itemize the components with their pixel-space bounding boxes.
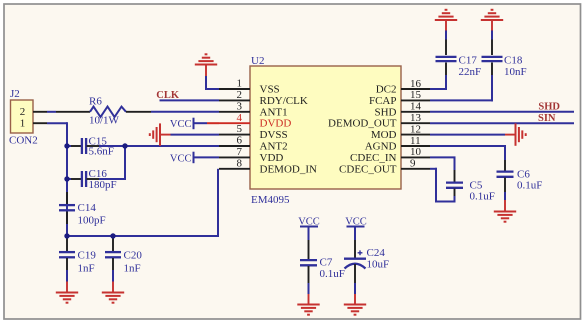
svg-text:U2: U2 — [251, 55, 264, 67]
svg-text:DC2: DC2 — [376, 84, 397, 96]
svg-text:C17: C17 — [459, 55, 478, 67]
svg-text:4: 4 — [237, 112, 243, 124]
svg-text:CON2: CON2 — [9, 135, 38, 147]
svg-text:0.1uF: 0.1uF — [517, 180, 542, 192]
svg-text:VCC: VCC — [170, 119, 192, 130]
svg-text:1: 1 — [20, 118, 26, 130]
svg-text:C7: C7 — [320, 257, 333, 269]
svg-text:15: 15 — [410, 89, 422, 101]
svg-text:10: 10 — [410, 146, 422, 158]
svg-text:8: 8 — [237, 157, 243, 169]
svg-text:13: 13 — [410, 112, 422, 124]
svg-text:R6: R6 — [89, 96, 102, 108]
svg-text:22nF: 22nF — [459, 66, 482, 78]
svg-text:SHD: SHD — [374, 106, 396, 118]
svg-text:C20: C20 — [124, 250, 143, 262]
svg-text:9: 9 — [410, 158, 416, 170]
svg-text:CDEC_IN: CDEC_IN — [350, 152, 397, 164]
svg-text:CDEC_OUT: CDEC_OUT — [339, 163, 397, 175]
svg-text:C19: C19 — [78, 250, 97, 262]
svg-text:10uF: 10uF — [367, 259, 390, 271]
svg-text:3: 3 — [237, 100, 243, 112]
svg-text:C14: C14 — [78, 202, 97, 214]
svg-text:2: 2 — [237, 89, 243, 101]
svg-text:0.1uF: 0.1uF — [320, 268, 345, 280]
svg-text:5.6nF: 5.6nF — [89, 146, 114, 158]
svg-text:14: 14 — [410, 101, 422, 113]
svg-text:180pF: 180pF — [89, 179, 117, 191]
svg-text:CLK: CLK — [156, 90, 180, 101]
svg-text:EM4095: EM4095 — [251, 194, 290, 206]
svg-text:6: 6 — [237, 135, 243, 147]
svg-text:10nF: 10nF — [504, 66, 527, 78]
svg-text:FCAP: FCAP — [369, 95, 397, 107]
svg-text:10/1W: 10/1W — [89, 115, 120, 127]
svg-text:VCC: VCC — [170, 153, 192, 164]
svg-text:C24: C24 — [367, 247, 386, 259]
svg-text:7: 7 — [237, 146, 243, 158]
svg-text:2: 2 — [20, 106, 26, 118]
svg-text:100pF: 100pF — [78, 215, 106, 227]
svg-text:1: 1 — [237, 78, 243, 90]
svg-text:5: 5 — [237, 123, 243, 135]
svg-text:DVDD: DVDD — [260, 118, 292, 130]
svg-text:C18: C18 — [504, 55, 523, 67]
svg-text:DEMOD_OUT: DEMOD_OUT — [328, 118, 397, 130]
svg-text:VDD: VDD — [260, 152, 284, 164]
svg-text:SIN: SIN — [538, 113, 556, 124]
svg-text:J2: J2 — [10, 88, 20, 100]
svg-text:16: 16 — [410, 78, 422, 90]
svg-text:11: 11 — [410, 135, 421, 147]
svg-text:DEMOD_IN: DEMOD_IN — [260, 163, 317, 175]
svg-text:SHD: SHD — [538, 102, 560, 113]
svg-text:RDY/CLK: RDY/CLK — [260, 95, 308, 107]
svg-text:DVSS: DVSS — [260, 129, 288, 141]
svg-text:AGND: AGND — [365, 141, 397, 153]
svg-text:VSS: VSS — [260, 84, 280, 96]
svg-text:1nF: 1nF — [78, 263, 95, 275]
svg-text:MOD: MOD — [371, 129, 397, 141]
svg-text:ANT2: ANT2 — [260, 141, 288, 153]
svg-text:0.1uF: 0.1uF — [470, 191, 495, 203]
svg-text:ANT1: ANT1 — [260, 106, 288, 118]
svg-text:12: 12 — [410, 123, 421, 135]
svg-text:1nF: 1nF — [124, 263, 141, 275]
